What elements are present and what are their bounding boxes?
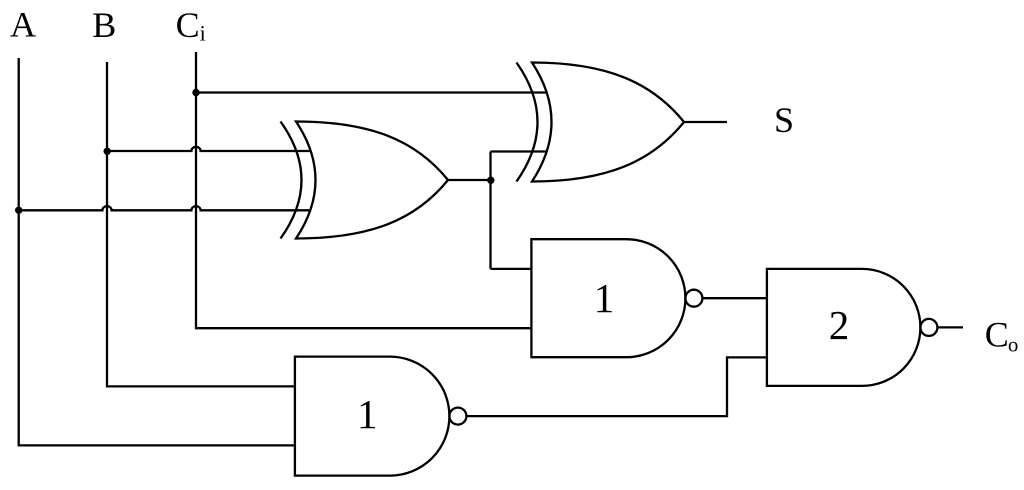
svg-text:Ci: Ci [176, 5, 206, 46]
svg-text:S: S [774, 100, 794, 140]
svg-text:1: 1 [357, 391, 378, 437]
svg-text:B: B [92, 5, 116, 45]
svg-text:A: A [10, 5, 36, 45]
svg-text:1: 1 [594, 275, 615, 321]
svg-text:2: 2 [829, 302, 850, 348]
svg-text:Co: Co [985, 314, 1019, 356]
